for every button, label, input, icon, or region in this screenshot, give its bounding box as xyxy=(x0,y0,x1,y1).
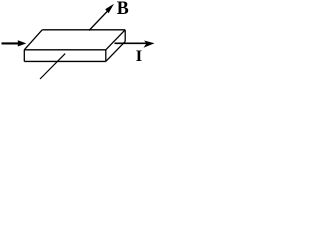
field arrow B shaft xyxy=(89,10,109,31)
current-in arrow head xyxy=(18,40,27,46)
current-out arrow I shaft xyxy=(115,42,148,44)
svg-text:I: I xyxy=(136,48,143,65)
leader line xyxy=(40,54,65,79)
svg-text:B: B xyxy=(117,0,129,19)
slab top face right edge xyxy=(106,30,125,50)
slab front face right edge xyxy=(105,50,107,62)
background xyxy=(0,0,157,82)
slab front face left edge xyxy=(23,50,25,62)
slab right face bottom edge xyxy=(106,41,125,61)
slab top face back edge xyxy=(42,29,125,31)
slab top face front edge xyxy=(24,49,106,51)
slab top face left edge xyxy=(24,30,42,50)
slab front face bottom edge xyxy=(24,60,106,62)
slab right face back vertical edge xyxy=(124,30,126,41)
current-in arrow shaft xyxy=(2,42,20,44)
current-out arrow I head xyxy=(144,41,155,48)
field arrow B head xyxy=(105,4,114,14)
